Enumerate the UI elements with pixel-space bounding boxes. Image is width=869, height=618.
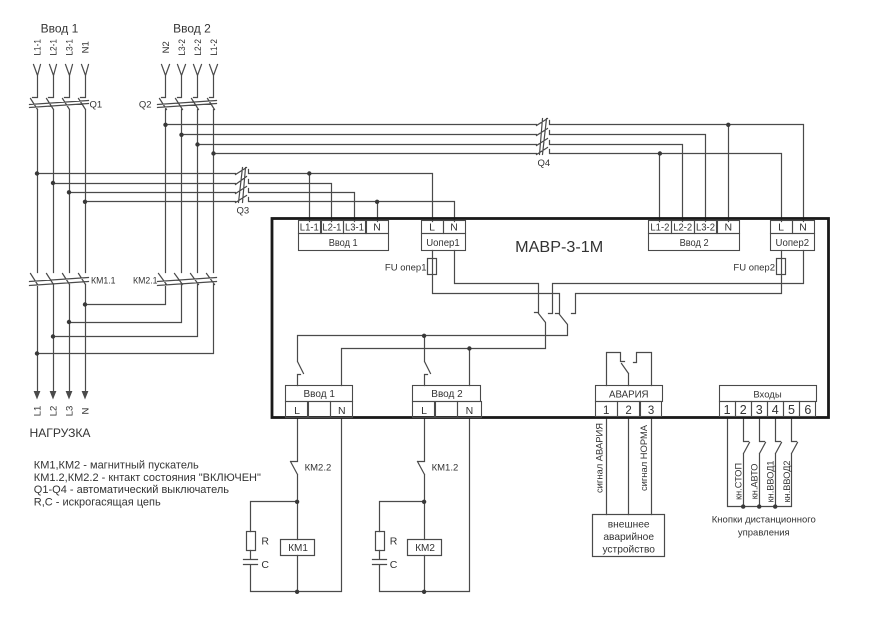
svg-text:L1-1: L1-1 bbox=[300, 222, 319, 234]
svg-text:5: 5 bbox=[788, 403, 795, 417]
svg-text:сигнал АВАРИЯ: сигнал АВАРИЯ bbox=[593, 423, 604, 493]
svg-text:Кнопки дистанционного: Кнопки дистанционного bbox=[712, 515, 816, 526]
svg-text:L: L bbox=[294, 405, 300, 417]
svg-text:3: 3 bbox=[756, 403, 763, 417]
svg-text:4: 4 bbox=[772, 403, 779, 417]
svg-text:Q1: Q1 bbox=[90, 100, 103, 111]
svg-text:N: N bbox=[450, 222, 458, 234]
svg-text:C: C bbox=[390, 559, 398, 571]
svg-text:МАВР-3-1М: МАВР-3-1М bbox=[515, 239, 603, 256]
svg-text:N: N bbox=[80, 407, 91, 414]
svg-text:Uопер1: Uопер1 bbox=[426, 237, 460, 249]
svg-text:N: N bbox=[373, 222, 381, 234]
svg-text:кн.ВВОД2: кн.ВВОД2 bbox=[782, 460, 792, 502]
svg-text:Q1-Q4 - автоматический выключа: Q1-Q4 - автоматический выключатель bbox=[34, 484, 229, 496]
svg-text:C: C bbox=[261, 559, 269, 571]
svg-text:КМ1.2,КМ2.2 - кнтакт состояния: КМ1.2,КМ2.2 - кнтакт состояния "ВКЛЮЧЕН" bbox=[34, 472, 261, 484]
svg-text:N: N bbox=[725, 222, 733, 234]
svg-text:N: N bbox=[338, 405, 346, 417]
svg-text:N1: N1 bbox=[80, 41, 91, 53]
svg-text:КМ2.1: КМ2.1 bbox=[133, 276, 158, 287]
svg-text:Ввод 2: Ввод 2 bbox=[431, 389, 463, 400]
svg-text:2: 2 bbox=[625, 405, 631, 417]
svg-text:Q4: Q4 bbox=[538, 158, 551, 169]
svg-text:внешнее: внешнее bbox=[608, 520, 650, 531]
svg-text:Q3: Q3 bbox=[237, 206, 250, 217]
svg-text:R: R bbox=[390, 536, 398, 548]
svg-text:L3-2: L3-2 bbox=[696, 222, 715, 234]
svg-text:N: N bbox=[466, 405, 474, 417]
svg-text:1: 1 bbox=[603, 405, 609, 417]
svg-text:L3-1: L3-1 bbox=[345, 222, 364, 234]
svg-text:КМ1.1: КМ1.1 bbox=[91, 276, 116, 287]
svg-text:КМ2.2: КМ2.2 bbox=[305, 462, 332, 473]
svg-text:FU опер2: FU опер2 bbox=[733, 263, 775, 274]
svg-text:Ввод 1: Ввод 1 bbox=[304, 389, 336, 400]
svg-text:кн.СТОП: кн.СТОП bbox=[734, 463, 744, 500]
svg-text:FU опер1: FU опер1 bbox=[385, 263, 427, 274]
svg-text:3: 3 bbox=[648, 405, 654, 417]
svg-text:устройство: устройство bbox=[602, 545, 655, 556]
svg-text:Ввод 2: Ввод 2 bbox=[680, 237, 709, 249]
svg-text:АВАРИЯ: АВАРИЯ bbox=[609, 389, 648, 400]
svg-text:КМ2: КМ2 bbox=[415, 543, 435, 554]
svg-text:L2: L2 bbox=[48, 406, 59, 417]
svg-text:КМ1.2: КМ1.2 bbox=[432, 462, 459, 473]
svg-text:L2-2: L2-2 bbox=[193, 39, 204, 56]
svg-text:кн.АВТО: кн.АВТО bbox=[750, 464, 760, 500]
svg-text:N2: N2 bbox=[161, 41, 172, 53]
svg-text:1: 1 bbox=[724, 403, 731, 417]
svg-text:L2-2: L2-2 bbox=[673, 222, 692, 234]
svg-text:управления: управления bbox=[738, 527, 790, 538]
svg-text:Ввод 1: Ввод 1 bbox=[329, 237, 358, 249]
svg-text:КМ1: КМ1 bbox=[288, 543, 308, 554]
svg-text:Ввод 1: Ввод 1 bbox=[41, 22, 79, 36]
svg-text:Ввод 2: Ввод 2 bbox=[173, 22, 211, 36]
svg-text:Q2: Q2 bbox=[139, 100, 152, 111]
svg-text:Uопер2: Uопер2 bbox=[776, 237, 810, 249]
svg-text:сигнал НОРМА: сигнал НОРМА bbox=[638, 424, 649, 491]
svg-text:L1-2: L1-2 bbox=[209, 39, 220, 56]
svg-text:R: R bbox=[261, 536, 269, 548]
svg-text:кн.ВВОД1: кн.ВВОД1 bbox=[766, 460, 776, 502]
svg-text:L: L bbox=[421, 405, 427, 417]
svg-text:N: N bbox=[799, 222, 807, 234]
svg-text:L3: L3 bbox=[64, 406, 75, 417]
svg-text:L1: L1 bbox=[32, 406, 43, 417]
svg-text:L1-2: L1-2 bbox=[650, 222, 669, 234]
svg-text:R,C - искрогасящая цепь: R,C - искрогасящая цепь bbox=[34, 497, 161, 509]
svg-text:L: L bbox=[429, 222, 435, 234]
svg-text:Входы: Входы bbox=[753, 389, 781, 400]
svg-text:L: L bbox=[778, 222, 784, 234]
svg-text:L3-1: L3-1 bbox=[64, 39, 75, 56]
svg-text:КМ1,КМ2 - магнитный пускатель: КМ1,КМ2 - магнитный пускатель bbox=[34, 459, 199, 471]
svg-text:L3-2: L3-2 bbox=[177, 39, 188, 56]
svg-text:L2-1: L2-1 bbox=[322, 222, 341, 234]
svg-text:аварийное: аварийное bbox=[603, 532, 654, 543]
svg-text:6: 6 bbox=[804, 403, 811, 417]
svg-text:L1-1: L1-1 bbox=[32, 39, 43, 56]
svg-text:L2-1: L2-1 bbox=[48, 39, 59, 56]
svg-text:2: 2 bbox=[740, 403, 747, 417]
svg-text:НАГРУЗКА: НАГРУЗКА bbox=[30, 426, 91, 440]
